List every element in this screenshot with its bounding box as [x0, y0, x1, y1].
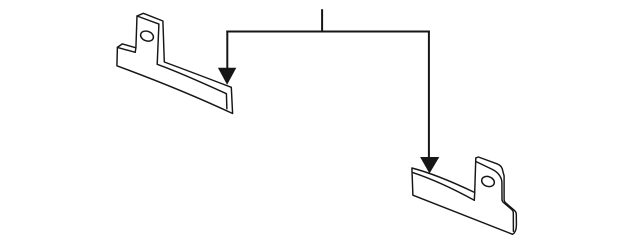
right retainer part outline	[412, 157, 517, 234]
right part oval hole	[480, 175, 496, 189]
wire drop to right part	[428, 31, 430, 159]
right part tab left edge lower segment	[473, 193, 475, 201]
horizontal connector	[226, 31, 430, 33]
leader stub at top center	[321, 9, 323, 31]
arrowhead to right part	[420, 157, 439, 174]
right part outer silhouette	[412, 157, 517, 234]
right part strip front-top edge	[413, 173, 474, 201]
left part front edges (tab front-top, front-right, strip front-top, inner end)	[137, 16, 227, 109]
left part outer silhouette	[117, 13, 233, 113]
left part tab left edge lower segment	[134, 48, 137, 53]
wire drop to left part	[226, 31, 228, 70]
left part oval hole	[139, 29, 155, 43]
left part step front-top edge	[117, 47, 135, 52]
left retainer part outline	[117, 13, 233, 113]
arrowhead to left part	[218, 68, 236, 85]
callout connector lines	[226, 9, 430, 158]
right part tab front edges and step inner edge	[476, 162, 513, 232]
